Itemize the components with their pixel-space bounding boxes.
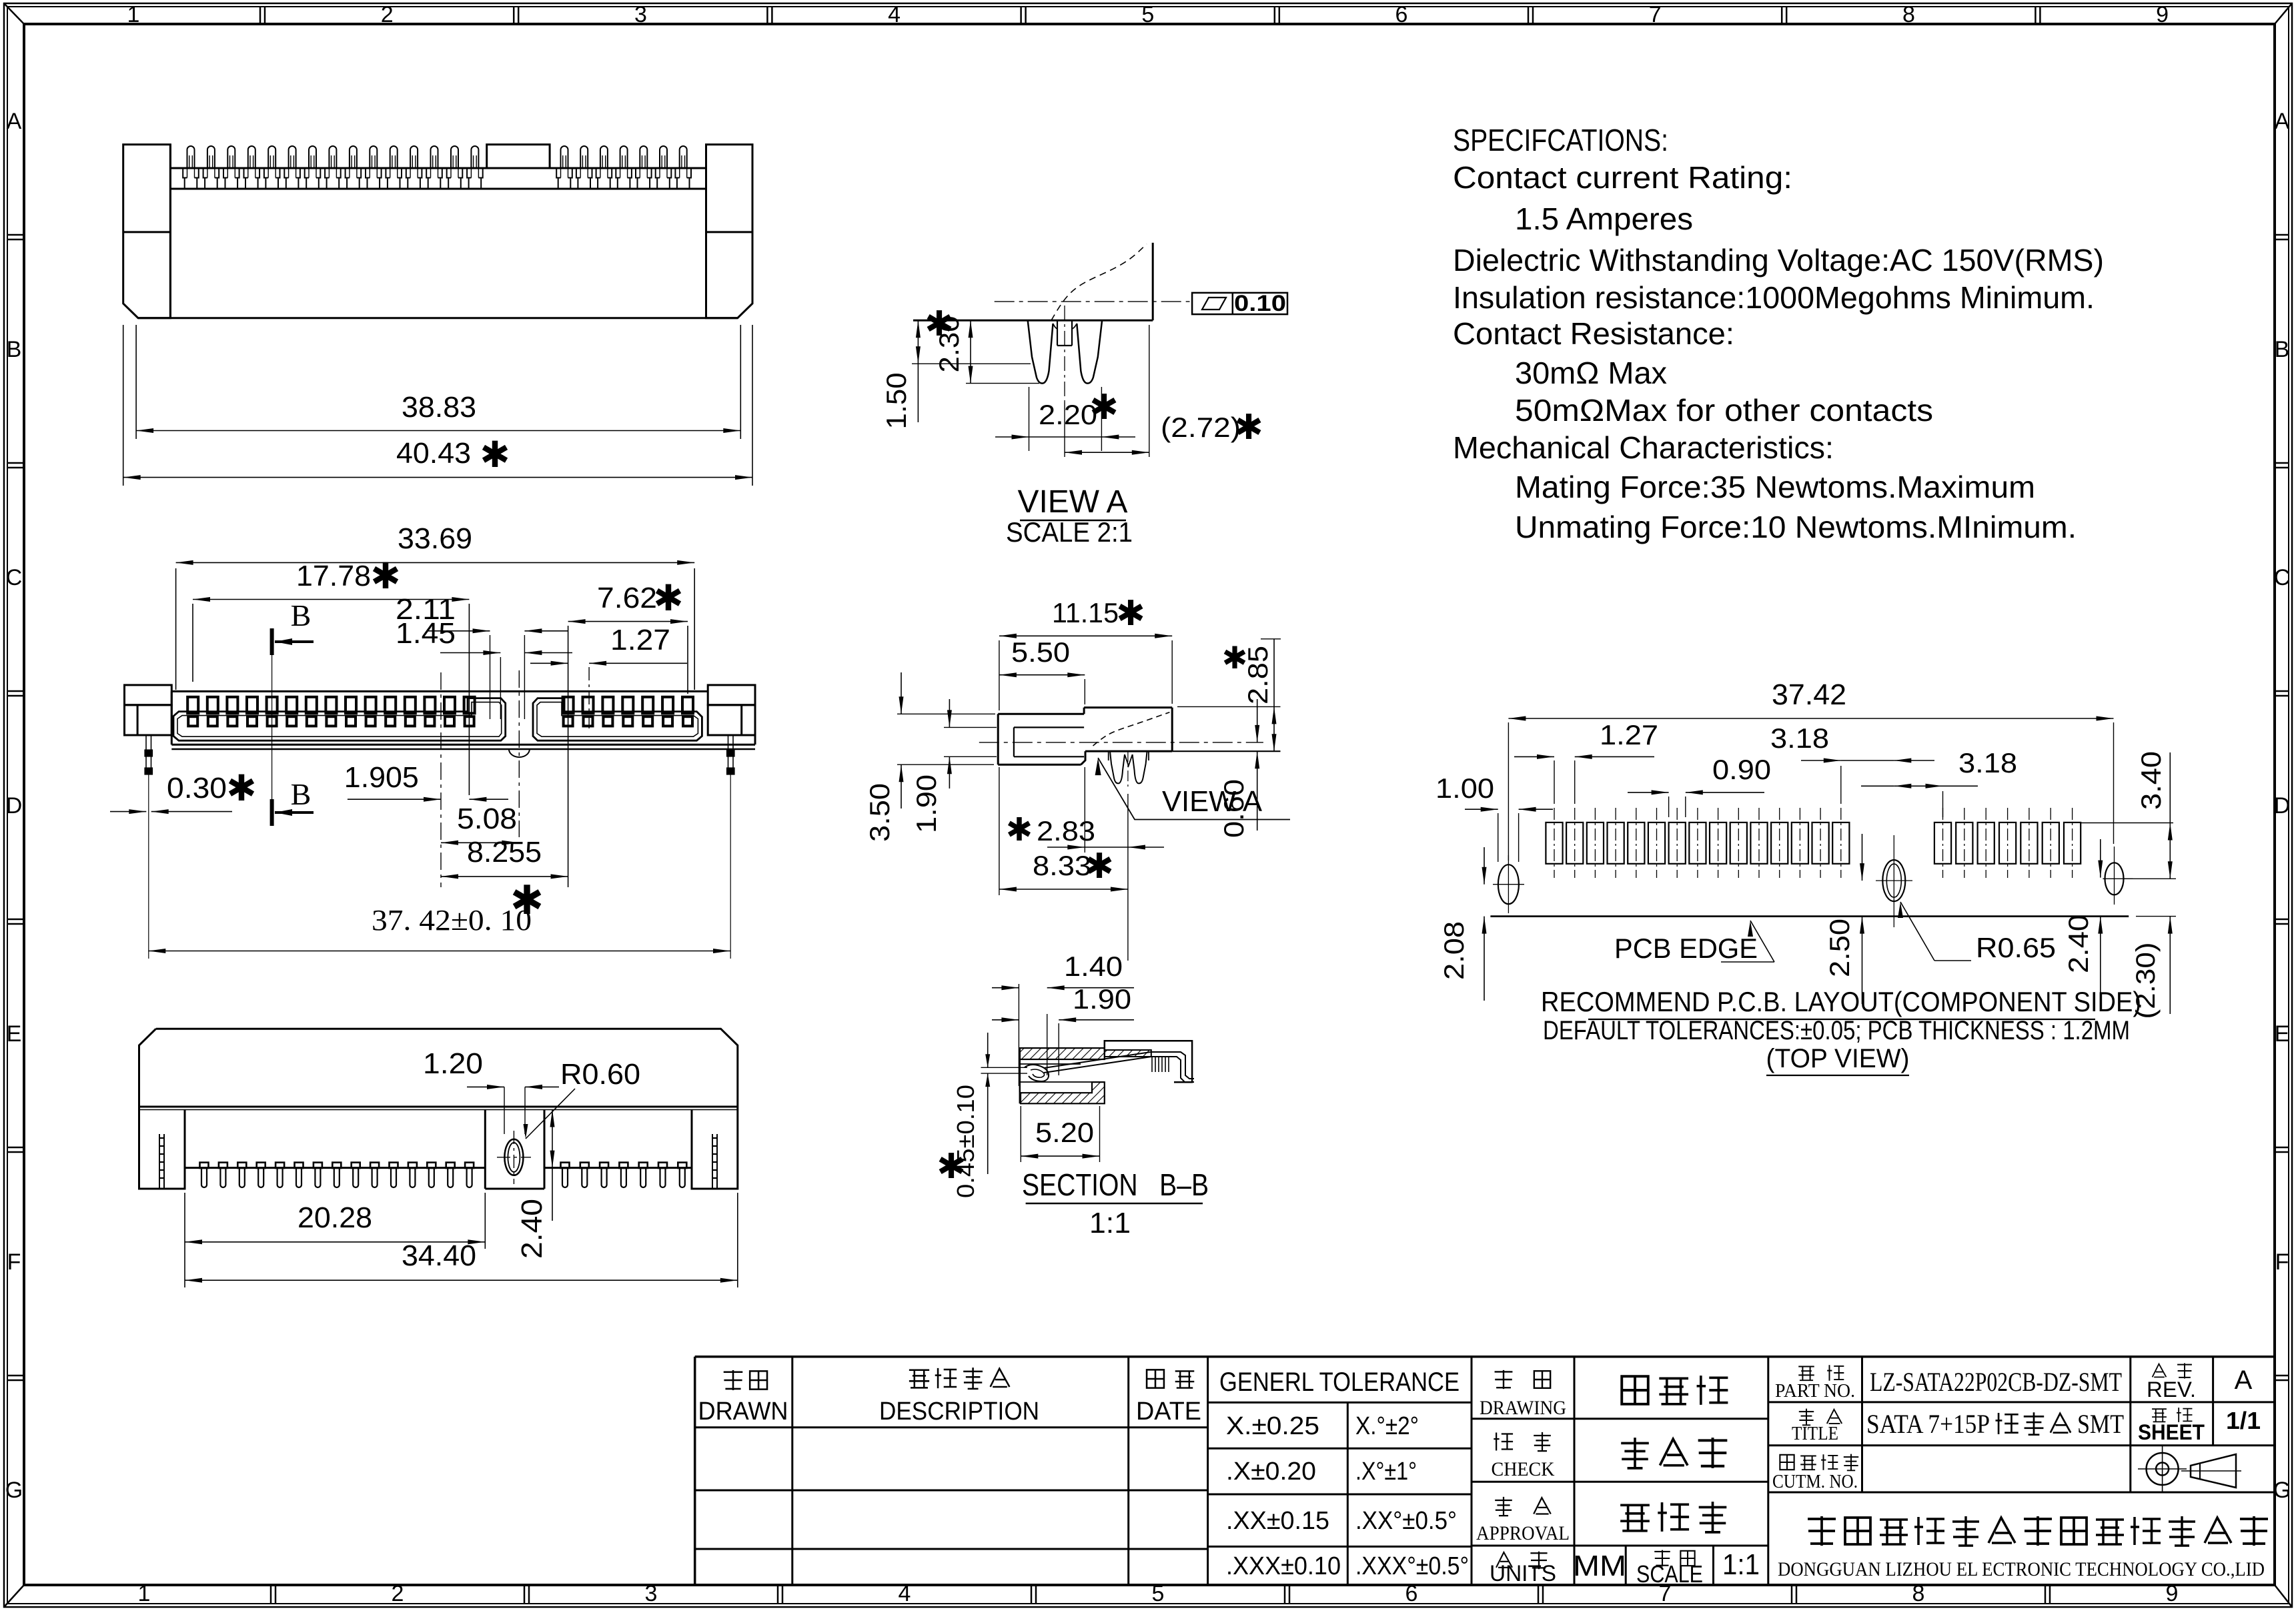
view A: flatness flag 0.10 xyxy=(1192,293,1287,314)
svg-text:F: F xyxy=(7,1249,21,1275)
svg-text:2.20: 2.20 xyxy=(1039,399,1097,430)
svg-text:DRAWING: DRAWING xyxy=(1480,1397,1566,1419)
side view: dim 1.90 xyxy=(944,726,997,728)
top view: raised rim right segment xyxy=(533,698,702,741)
svg-text:G: G xyxy=(2273,1478,2291,1503)
svg-text:1:1: 1:1 xyxy=(1089,1207,1131,1239)
svg-text:R0.65: R0.65 xyxy=(1976,932,2056,963)
svg-text:C: C xyxy=(6,565,23,590)
side view: dim 2.83 xyxy=(1084,767,1085,853)
frame corner diagonals xyxy=(4,3,24,24)
svg-text:E: E xyxy=(7,1021,22,1047)
svg-text:1.45: 1.45 xyxy=(396,617,456,650)
svg-text:B: B xyxy=(291,598,312,632)
bottom view: body outline xyxy=(139,1029,738,1189)
view A: dim 2.30 xyxy=(966,383,1039,384)
svg-text:D: D xyxy=(6,793,23,819)
svg-text:0.30: 0.30 xyxy=(167,772,227,804)
top view: right mounting tab xyxy=(708,685,755,705)
pcb: dim 2.40 xyxy=(2100,839,2101,878)
pcb: dim 3.18 right xyxy=(1942,791,1944,817)
svg-text:✱: ✱ xyxy=(1234,408,1263,447)
svg-text:6: 6 xyxy=(1405,1581,1418,1606)
svg-text:7: 7 xyxy=(1649,2,1662,27)
svg-text:VIEW A: VIEW A xyxy=(1018,484,1128,520)
svg-text:1: 1 xyxy=(127,2,140,27)
title block: left header texts xyxy=(724,1370,743,1390)
svg-text:SCALE 2:1: SCALE 2:1 xyxy=(1006,516,1133,548)
svg-text:37. 42±0. 10: 37. 42±0. 10 xyxy=(372,904,532,937)
title block: title row xyxy=(1799,1409,1814,1426)
svg-text:PART NO.: PART NO. xyxy=(1775,1381,1855,1402)
dim 1.20 xyxy=(504,1087,505,1134)
dim 33.69 xyxy=(175,568,177,690)
svg-text:✱: ✱ xyxy=(1116,594,1145,633)
dim 2.40 vertical xyxy=(552,1110,553,1221)
svg-text:✱: ✱ xyxy=(480,435,510,475)
front view: body bottom edge xyxy=(138,317,738,319)
svg-text:1.00: 1.00 xyxy=(1436,772,1494,804)
dim 5.08 xyxy=(441,842,519,843)
ruler zone ticks and labels xyxy=(259,7,261,24)
svg-text:1.90: 1.90 xyxy=(1073,983,1131,1015)
svg-text:5: 5 xyxy=(1152,1581,1165,1606)
svg-text:✱: ✱ xyxy=(226,768,256,809)
top view: raised rim left segment xyxy=(173,698,506,741)
section B-B: dim 1.90 xyxy=(1058,1023,1059,1075)
svg-text:B: B xyxy=(7,337,22,362)
pcb layout: pcb edge line xyxy=(1490,915,2129,917)
side view: snap clip small xyxy=(1110,751,1125,783)
title block: names xyxy=(1622,1376,1648,1404)
top view: right pin tail xyxy=(728,735,729,774)
bottom view: 7 signal pin tails xyxy=(561,1163,570,1168)
front view: body top shelf lines xyxy=(170,167,706,169)
top view: center bump xyxy=(509,749,530,757)
section B-B: dim 0.45±0.10 xyxy=(981,1067,1028,1068)
pcb: dim 37.42 xyxy=(1508,722,1509,861)
svg-text:4: 4 xyxy=(899,1581,911,1606)
pcb layout: pads left group xyxy=(1554,808,1555,878)
svg-text:CHECK: CHECK xyxy=(1492,1458,1555,1480)
svg-text:Dielectric Withstanding Volt: Dielectric Withstanding Voltage:AC 150V(… xyxy=(1453,243,2104,278)
svg-text:Contact current Rating:: Contact current Rating: xyxy=(1453,160,1792,195)
pcb layout: right oval hole xyxy=(2105,863,2124,895)
section B-B: dim 5.20 xyxy=(1020,1106,1021,1162)
svg-text:.XX±0.15: .XX±0.15 xyxy=(1226,1507,1329,1535)
svg-text:5.20: 5.20 xyxy=(1035,1117,1094,1148)
svg-text:A: A xyxy=(2275,109,2290,134)
top view: left pin tail xyxy=(145,735,147,774)
svg-text:C: C xyxy=(2274,565,2291,590)
dim 1.905 xyxy=(440,672,442,887)
side view: dim 11.15 xyxy=(999,640,1000,710)
svg-text:.XXX±0.10: .XXX±0.10 xyxy=(1226,1552,1341,1580)
svg-text:2: 2 xyxy=(392,1581,404,1606)
pcb: dim 3.40 xyxy=(2080,823,2173,824)
svg-text:3: 3 xyxy=(634,2,647,27)
pcb layout: middle oval hole xyxy=(1882,860,1905,901)
dim 37.42±0.10 xyxy=(148,951,730,952)
svg-text:Contact Resistance:: Contact Resistance: xyxy=(1453,316,1734,351)
svg-text:2.50: 2.50 xyxy=(1824,919,1855,977)
svg-text:30mΩ Max: 30mΩ Max xyxy=(1515,356,1667,390)
svg-text:33.69: 33.69 xyxy=(398,522,472,555)
pcb: dim 3.18 left xyxy=(1840,766,1842,804)
svg-text:✱: ✱ xyxy=(1222,640,1248,675)
section B-B cut line bottom xyxy=(270,799,274,826)
svg-text:.XX°±0.5°: .XX°±0.5° xyxy=(1355,1507,1457,1535)
svg-text:1/1: 1/1 xyxy=(2226,1407,2261,1434)
svg-text:G: G xyxy=(5,1478,23,1503)
svg-text:E: E xyxy=(2275,1021,2290,1047)
svg-text:SMT: SMT xyxy=(2077,1409,2124,1439)
svg-text:0.90: 0.90 xyxy=(1712,754,1771,785)
title block: company name xyxy=(1808,1516,1836,1546)
svg-text:7.62: 7.62 xyxy=(597,582,657,614)
view A: centerline xyxy=(995,301,1190,302)
svg-text:X.±0.25: X.±0.25 xyxy=(1226,1412,1319,1440)
title block: rev sheet xyxy=(2153,1364,2167,1378)
top view: 7 signal contact pads xyxy=(563,697,574,714)
section B-B: crimp hatch lines xyxy=(1151,1057,1153,1072)
svg-text:34.40: 34.40 xyxy=(402,1239,476,1272)
svg-text:5.50: 5.50 xyxy=(1011,636,1070,668)
side view: break curve xyxy=(1093,712,1170,746)
front view: connector body left end block xyxy=(123,145,171,318)
top view: gap center line xyxy=(518,670,520,837)
side view: body outline xyxy=(1084,706,1172,708)
svg-text:APPROVAL: APPROVAL xyxy=(1476,1522,1570,1544)
title block: approval labels xyxy=(1495,1370,1513,1389)
svg-text:✱: ✱ xyxy=(1006,813,1033,848)
side view: dim 2.85 xyxy=(1261,638,1281,640)
svg-text:MM: MM xyxy=(1573,1550,1626,1582)
svg-text:(2.72): (2.72) xyxy=(1161,412,1241,443)
svg-text:.XXX°±0.5°: .XXX°±0.5° xyxy=(1355,1552,1469,1580)
dim 38.83 xyxy=(135,325,137,439)
top view: left mounting tab xyxy=(125,685,172,705)
front view: 7 signal pins xyxy=(561,146,568,168)
view A: break curve dashed xyxy=(1051,244,1147,321)
side view: slot xyxy=(1014,726,1084,728)
svg-text:5.08: 5.08 xyxy=(457,802,517,835)
svg-text:3.40: 3.40 xyxy=(2135,751,2167,810)
side view: dim 8.33 xyxy=(999,767,1000,895)
svg-text:.X±0.20: .X±0.20 xyxy=(1226,1458,1316,1486)
svg-text:8: 8 xyxy=(1912,1581,1925,1606)
section B-B: housing left wall and cavity xyxy=(1019,1048,1021,1103)
title block: third angle projection symbol xyxy=(2147,1453,2179,1485)
svg-text:DRAWN: DRAWN xyxy=(698,1398,788,1426)
svg-text:✱: ✱ xyxy=(1085,847,1114,886)
view A: dim 2.20 xyxy=(1029,387,1030,451)
dim 1.45 xyxy=(500,657,501,719)
svg-text:11.15: 11.15 xyxy=(1052,597,1119,628)
svg-text:Unmating Force:10 Newtoms.MI: Unmating Force:10 Newtoms.MInimum. xyxy=(1515,510,2077,544)
svg-text:2.83: 2.83 xyxy=(1037,815,1095,847)
svg-text:1.27: 1.27 xyxy=(610,624,670,656)
svg-text:37.42: 37.42 xyxy=(1772,678,1846,711)
svg-text:3.18: 3.18 xyxy=(1770,722,1829,754)
pcb: dim (2.30) xyxy=(2136,916,2176,917)
view A: snap clip prongs xyxy=(1028,320,1053,383)
svg-text:9: 9 xyxy=(2156,2,2169,27)
svg-text:✱: ✱ xyxy=(370,556,400,596)
svg-text:A: A xyxy=(7,109,22,134)
bottom view: center block with oval slot xyxy=(484,1110,486,1189)
svg-text:8: 8 xyxy=(1902,2,1915,27)
bottom view: oval slot xyxy=(504,1139,523,1175)
title block: part number xyxy=(1798,1366,1814,1380)
svg-text:38.83: 38.83 xyxy=(402,391,476,424)
svg-text:F: F xyxy=(2275,1249,2289,1275)
view A: mounting surface line xyxy=(913,320,1153,322)
svg-text:40.43: 40.43 xyxy=(396,437,471,470)
bottom view: pin web edges xyxy=(185,1167,485,1169)
section B-B: dim 1.40 xyxy=(1018,984,1019,1086)
dim 40.43 xyxy=(123,325,124,486)
front view: 15 power pins xyxy=(187,146,195,168)
svg-text:1: 1 xyxy=(138,1581,151,1606)
svg-text:(TOP VIEW): (TOP VIEW) xyxy=(1766,1044,1910,1073)
svg-text:5: 5 xyxy=(1141,2,1154,27)
svg-text:9: 9 xyxy=(2166,1581,2179,1606)
svg-text:SATA 7+15P: SATA 7+15P xyxy=(1866,1409,1990,1439)
pcb: dim 1.00 xyxy=(1498,813,1499,862)
side view: dim 0.60 xyxy=(1257,699,1258,742)
svg-text:✱: ✱ xyxy=(937,1147,966,1186)
section B-B: top hatched wall xyxy=(1020,1048,1105,1059)
svg-text:SECTION B–B: SECTION B–B xyxy=(1022,1167,1209,1202)
svg-text:SHEET: SHEET xyxy=(2138,1420,2205,1444)
front view: connector body right end block xyxy=(706,145,753,318)
title block: customer number row xyxy=(1780,1455,1794,1470)
svg-text:PCB EDGE: PCB EDGE xyxy=(1614,933,1758,964)
svg-text:2.08: 2.08 xyxy=(1438,921,1470,980)
svg-text:✱: ✱ xyxy=(510,878,544,923)
svg-text:8.255: 8.255 xyxy=(467,836,542,869)
svg-text:X.°±2°: X.°±2° xyxy=(1355,1412,1419,1440)
svg-text:B: B xyxy=(2275,337,2290,362)
svg-text:D: D xyxy=(2274,793,2291,819)
top view: 15 power contact pads xyxy=(187,697,198,714)
side view: right tail lines xyxy=(1177,706,1281,707)
title block table grid xyxy=(695,1356,2275,1358)
dim 20.28 xyxy=(184,1193,185,1287)
svg-text:0.10: 0.10 xyxy=(1234,291,1286,316)
svg-text:SCALE: SCALE xyxy=(1636,1560,1703,1588)
top view: body outline xyxy=(171,690,708,692)
svg-text:SPECIFCATIONS:: SPECIFCATIONS: xyxy=(1453,123,1668,157)
view A: dim 1.50 xyxy=(912,363,1031,364)
svg-text:✱: ✱ xyxy=(925,305,954,344)
pcb: dim 0.90 xyxy=(1668,796,1670,817)
svg-text:20.28: 20.28 xyxy=(298,1201,372,1234)
svg-text:50mΩMax for other contacts: 50mΩMax for other contacts xyxy=(1515,393,1933,428)
svg-text:VIEW A: VIEW A xyxy=(1162,785,1263,818)
svg-text:1.90: 1.90 xyxy=(911,774,942,833)
svg-text:1.20: 1.20 xyxy=(423,1047,483,1080)
dim 2.11 xyxy=(490,635,491,719)
svg-text:LZ-SATA22P02CB-DZ-SMT: LZ-SATA22P02CB-DZ-SMT xyxy=(1870,1367,2122,1397)
svg-text:✱: ✱ xyxy=(653,578,683,618)
svg-text:B: B xyxy=(291,777,312,811)
svg-text:RECOMMEND P.C.B. LAYOUT(COMP: RECOMMEND P.C.B. LAYOUT(COMPONENT SIDE) xyxy=(1541,986,2141,1017)
svg-text:TITLE: TITLE xyxy=(1792,1424,1838,1444)
section B-B: bottom hatched wall xyxy=(1021,1082,1105,1103)
svg-text:DEFAULT TOLERANCES:±0.05; PC: DEFAULT TOLERANCES:±0.05; PCB THICKNESS … xyxy=(1543,1016,2130,1045)
svg-text:2: 2 xyxy=(381,2,394,27)
svg-text:REV.: REV. xyxy=(2147,1378,2196,1402)
svg-text:3: 3 xyxy=(645,1581,658,1606)
svg-text:8.33: 8.33 xyxy=(1033,850,1091,881)
svg-text:17.78: 17.78 xyxy=(296,560,371,592)
side view: centerline xyxy=(979,742,1263,743)
side view: VIEW A leader xyxy=(1095,758,1101,775)
svg-text:DATE: DATE xyxy=(1136,1398,1201,1426)
svg-text:Mating Force:35 Newtoms.Maxi: Mating Force:35 Newtoms.Maximum xyxy=(1515,470,2035,504)
svg-text:6: 6 xyxy=(1395,2,1408,27)
svg-text:3.18: 3.18 xyxy=(1958,747,2017,778)
svg-text:4: 4 xyxy=(888,2,901,27)
svg-text:R0.60: R0.60 xyxy=(560,1058,640,1091)
svg-text:✱: ✱ xyxy=(1089,388,1119,427)
svg-text:Mechanical Characteristics:: Mechanical Characteristics: xyxy=(1453,430,1834,465)
svg-text:CUTM. NO.: CUTM. NO. xyxy=(1772,1472,1858,1492)
pcb layout: left oval hole xyxy=(1498,865,1519,904)
svg-text:1.50: 1.50 xyxy=(881,373,912,430)
side view: dim 5.50 xyxy=(1084,679,1085,704)
svg-text:A: A xyxy=(2235,1366,2253,1395)
dim 8.255 xyxy=(441,876,568,877)
pcb: dim 1.27 xyxy=(1554,760,1555,804)
svg-text:3.50: 3.50 xyxy=(864,783,895,842)
svg-text:.X°±1°: .X°±1° xyxy=(1355,1458,1417,1486)
pcb layout: pads right group xyxy=(1942,808,1944,878)
svg-text:DESCRIPTION: DESCRIPTION xyxy=(879,1398,1039,1426)
svg-text:1.5 Amperes: 1.5 Amperes xyxy=(1515,201,1693,236)
section B-B: mating connector outline xyxy=(1105,1041,1192,1082)
bottom view: left block pin detail xyxy=(159,1134,160,1189)
svg-text:GENERL TOLERANCE: GENERL TOLERANCE xyxy=(1219,1368,1460,1397)
dim 1.27 top view xyxy=(588,667,590,728)
section B-B: contact strip xyxy=(1044,1052,1194,1079)
dim 0.30 xyxy=(110,811,146,813)
svg-text:1.905: 1.905 xyxy=(344,761,419,794)
dim 7.62 xyxy=(568,626,569,887)
dim 34.40 xyxy=(737,1193,738,1287)
front view: center key tab xyxy=(487,145,550,168)
svg-text:1.40: 1.40 xyxy=(1064,951,1123,982)
svg-text:Insulation resistance:1000Meg: Insulation resistance:1000Megohms Minimu… xyxy=(1453,280,2095,315)
svg-text:1:1: 1:1 xyxy=(1722,1548,1760,1581)
side view: dim 3.50 xyxy=(897,713,995,714)
svg-text:2.40: 2.40 xyxy=(516,1199,548,1259)
view A: dim (2.72) xyxy=(1149,325,1150,457)
svg-text:1.27: 1.27 xyxy=(1600,719,1658,750)
bottom view: right block pin detail xyxy=(712,1134,713,1189)
svg-text:DONGGUAN LIZHOU EL ECTRONIC TE: DONGGUAN LIZHOU EL ECTRONIC TECHNOLOGY C… xyxy=(1778,1558,2265,1580)
section B-B cut line top xyxy=(270,628,274,655)
pcb: dim 2.50 xyxy=(1862,834,1863,881)
pcb: dim 2.08 xyxy=(1484,847,1485,885)
bottom view: 15 power pin tails xyxy=(200,1163,209,1168)
svg-text:UNITS: UNITS xyxy=(1490,1561,1556,1586)
svg-text:2.40: 2.40 xyxy=(2063,915,2094,973)
dim 17.78 xyxy=(192,604,193,682)
